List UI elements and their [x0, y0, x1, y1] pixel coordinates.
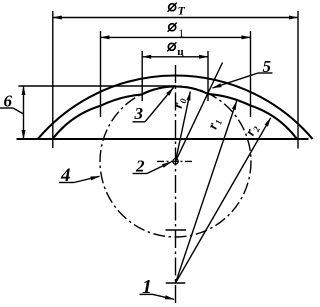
- dimension line diam 1: [101, 36, 251, 38]
- extension line right (diam g): [297, 11, 299, 149]
- vertical centerline (axis), label 1 target: [175, 65, 177, 305]
- svg-text:ц: ц: [177, 46, 184, 58]
- extension line right (diam d): [207, 51, 209, 101]
- extension line left (diam g): [52, 11, 54, 148]
- sphere construction circle (dash-dot), label 4 target: [100, 86, 251, 237]
- extension line right (diam 1): [250, 31, 252, 117]
- label diam d: [167, 42, 184, 58]
- center tick lower (r1 r2 center): [166, 282, 186, 284]
- label diam g: [168, 3, 186, 18]
- svg-text:T: T: [178, 4, 186, 18]
- svg-text:2: 2: [135, 157, 145, 176]
- dimension line diam g: [53, 17, 298, 19]
- height dimension line with arrows: [23, 86, 25, 139]
- r1 radius line with arrow: [176, 101, 237, 283]
- r2 radius line with arrow: [176, 118, 271, 283]
- r0 radius line with arrow: [176, 92, 191, 162]
- svg-text:3: 3: [134, 104, 144, 123]
- label diam 1: [168, 23, 185, 40]
- node 2: sphere center small circle: [173, 159, 178, 164]
- dimension line diam d: [142, 56, 208, 58]
- svg-text:1: 1: [178, 26, 184, 40]
- junction radius line through point 5: [176, 63, 223, 162]
- outer surface arc: [38, 75, 313, 139]
- horizontal dash-dot axis through node 2: [157, 160, 193, 162]
- inner surface arcs (r2, r1, r0 zones): [53, 86, 298, 139]
- center tick upper: [166, 229, 187, 231]
- baseline (glass rim plane): [17, 138, 309, 140]
- label r2: [243, 122, 262, 139]
- extension line left (diam 1): [100, 31, 102, 117]
- label r0: [171, 96, 189, 110]
- label r1: [206, 116, 225, 131]
- extension line left (diam d): [141, 51, 143, 101]
- height reference line: [18, 85, 175, 87]
